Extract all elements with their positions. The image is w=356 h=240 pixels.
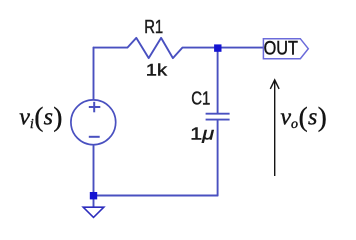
svg-text:OUT: OUT	[264, 39, 299, 60]
svg-text:R1: R1	[144, 17, 163, 37]
svg-text:1k: 1k	[146, 62, 168, 80]
svg-text:C1: C1	[191, 89, 210, 109]
svg-text:vi(s): vi(s)	[19, 102, 62, 132]
svg-text:vo(s): vo(s)	[280, 102, 326, 132]
svg-text:1μ: 1μ	[190, 123, 214, 143]
